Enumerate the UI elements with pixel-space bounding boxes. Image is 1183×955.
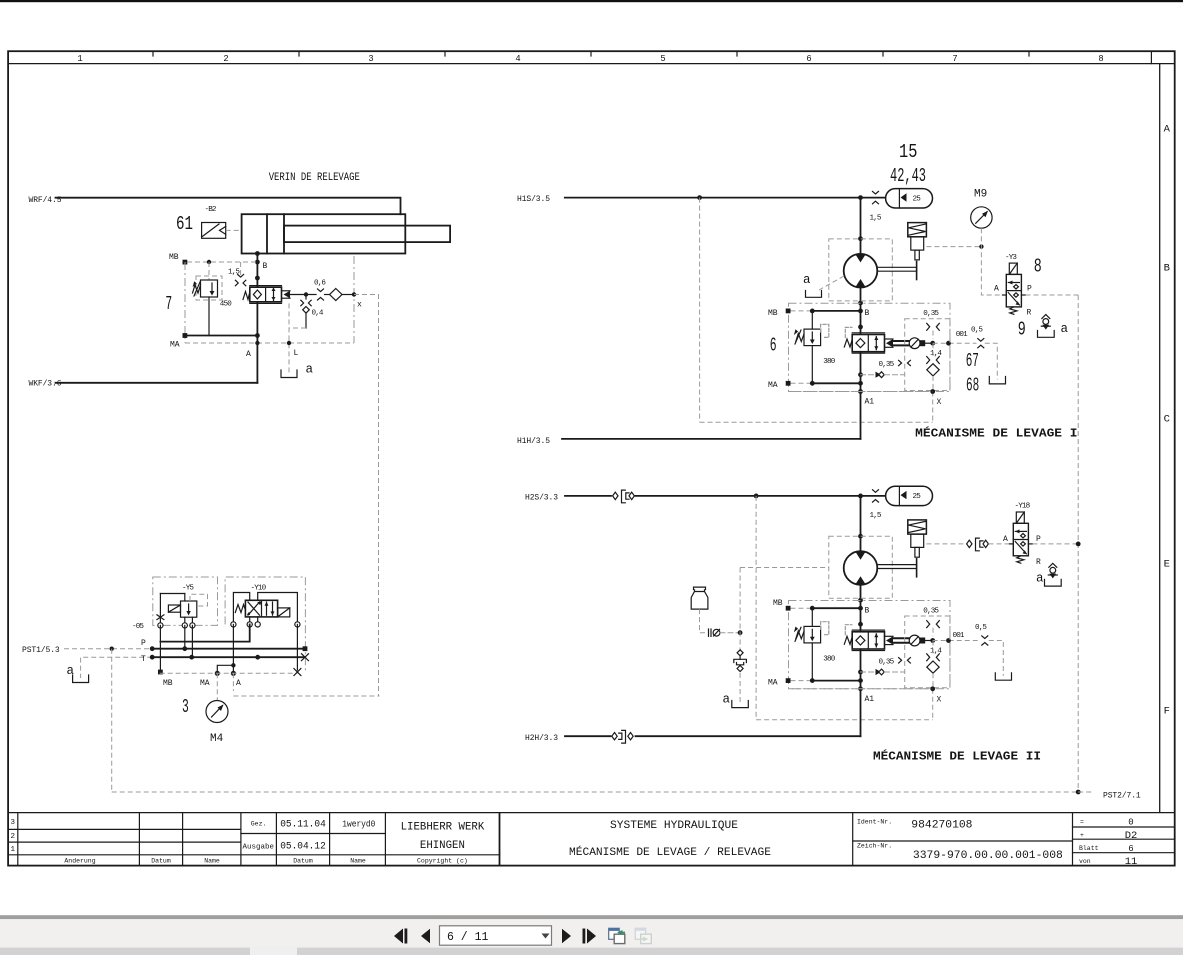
counterbalance valve (cylinder)	[243, 286, 282, 304]
svg-text:4: 4	[515, 54, 520, 64]
dash-dot box Y5	[153, 577, 218, 625]
check valve left I	[861, 372, 905, 378]
svg-text:68: 68	[966, 374, 979, 396]
drain dashed 67/68 I	[985, 343, 998, 379]
bottle wire	[700, 609, 708, 633]
wire H2S left	[565, 495, 611, 497]
svg-text:MA: MA	[768, 381, 778, 390]
main riser wire I	[860, 198, 862, 255]
relief valve 7 pilot dashes	[196, 262, 241, 300]
counterbalance pilot piston I	[885, 338, 920, 349]
svg-text:PST1/5.3: PST1/5.3	[22, 646, 60, 655]
svg-text:3: 3	[368, 54, 373, 64]
motor shaft II	[877, 559, 916, 577]
svg-text:M4: M4	[210, 733, 224, 745]
port MA square I	[786, 381, 791, 386]
pilot dashed II	[933, 640, 981, 642]
toolbar separator	[0, 915, 1183, 919]
svg-text:Zeich-Nr.: Zeich-Nr.	[857, 843, 892, 850]
tank a dashed link	[81, 657, 153, 678]
wire MB solid II	[812, 607, 860, 609]
svg-text:a: a	[803, 273, 811, 287]
svg-text:3379-970.00.00.001-008: 3379-970.00.00.001-008	[913, 850, 1063, 862]
Y5 pilot dashed loop	[190, 594, 208, 606]
block boundary dashed row	[160, 672, 298, 674]
Y3 pilot dashed to bus	[1026, 294, 1079, 296]
top window black bar	[0, 0, 1183, 2]
motor box dashed I	[829, 239, 893, 301]
svg-text:B: B	[263, 262, 268, 271]
orifice 1,4 I	[927, 357, 940, 364]
svg-text:001: 001	[956, 331, 968, 339]
svg-text:9: 9	[1018, 318, 1026, 340]
coupling (brake pilot)	[967, 538, 989, 551]
node B wire from cylinder	[256, 254, 258, 383]
orifice 0,4 branch	[301, 295, 311, 329]
svg-text:-Y18: -Y18	[1015, 503, 1031, 511]
cylinder body	[242, 214, 406, 253]
nav last-page button	[583, 929, 597, 944]
svg-text:MÉCANISME DE LEVAGE I: MÉCANISME DE LEVAGE I	[915, 426, 1077, 441]
orifice 1,5	[235, 275, 245, 286]
pilot dashed to lower block	[354, 295, 379, 697]
filter diamond	[330, 289, 342, 301]
accumulator II	[886, 486, 933, 505]
svg-text:380: 380	[823, 358, 835, 366]
svg-text:6: 6	[770, 335, 777, 357]
svg-text:MA: MA	[170, 341, 180, 350]
nav first-page button	[394, 929, 407, 944]
svg-text:A: A	[246, 350, 251, 359]
block 6 dash-dot box I	[789, 303, 951, 391]
svg-text:P: P	[1027, 285, 1032, 294]
svg-text:1: 1	[77, 54, 82, 64]
brake II	[908, 520, 927, 557]
tank a (bottle line)	[732, 701, 749, 708]
svg-text:67: 67	[966, 350, 979, 372]
svg-text:F: F	[1164, 706, 1170, 718]
svg-text:E: E	[1164, 559, 1170, 571]
svg-text:EHINGEN: EHINGEN	[420, 840, 465, 852]
svg-text:MÉCANISME DE LEVAGE II: MÉCANISME DE LEVAGE II	[873, 749, 1041, 764]
dash-dot enclosure left	[184, 262, 186, 343]
plugged end X2	[294, 669, 301, 676]
svg-text:0: 0	[1128, 818, 1133, 828]
svg-text:0,35: 0,35	[879, 361, 895, 369]
Y3 port stubs	[1003, 294, 1026, 296]
svg-text:X: X	[937, 398, 942, 407]
title block header labels	[64, 821, 467, 865]
svg-text:25: 25	[913, 493, 922, 501]
svg-text:T: T	[141, 655, 146, 664]
svg-text:Name: Name	[350, 858, 366, 865]
port MA square II	[786, 678, 791, 683]
Y5 port drops	[160, 625, 192, 672]
svg-text:5: 5	[660, 54, 665, 64]
wire MA solid I	[812, 382, 860, 384]
svg-text:Ident-Nr.: Ident-Nr.	[857, 819, 892, 826]
svg-text:6: 6	[1128, 844, 1133, 854]
A1 dashed row II	[789, 688, 933, 690]
orifice drop dashed II	[932, 628, 934, 637]
MA step wire	[217, 665, 233, 673]
svg-text:1,5: 1,5	[870, 215, 882, 223]
svg-text:VERIN DE RELEVAGE: VERIN DE RELEVAGE	[269, 172, 361, 184]
Y5 port circles	[158, 623, 195, 628]
gauge M4 wire	[216, 673, 218, 700]
brake I	[908, 223, 927, 260]
svg-text:25: 25	[913, 196, 922, 204]
main riser wire II	[860, 496, 862, 552]
orifice 0,6	[306, 289, 330, 300]
svg-text:05.11.04: 05.11.04	[280, 818, 326, 830]
breather II	[1048, 563, 1057, 578]
plugged end square	[303, 646, 308, 651]
svg-text:-05: -05	[132, 623, 144, 631]
toolbar background	[0, 919, 1183, 947]
svg-text:R: R	[1027, 309, 1032, 318]
svg-text:8: 8	[1098, 54, 1103, 64]
nav next-page button	[562, 929, 571, 943]
pilot plug II	[920, 638, 925, 644]
svg-text:0,5: 0,5	[975, 624, 987, 632]
pilot dashed I	[933, 342, 977, 344]
wire H2H corner	[636, 735, 861, 737]
svg-text:1: 1	[11, 846, 16, 854]
svg-text:P: P	[141, 639, 146, 648]
svg-text:Anderung: Anderung	[64, 858, 95, 865]
next-view icon (disabled)	[635, 928, 651, 943]
svg-text:a: a	[1061, 322, 1069, 336]
orifice 0,35 top I	[927, 323, 940, 330]
valve Y10 4/2 body	[235, 600, 290, 617]
orifice drop dashed I	[932, 331, 934, 340]
relief riser II	[811, 608, 813, 680]
right margin inner border	[1159, 64, 1161, 813]
dash-dot enclosure right	[353, 256, 355, 343]
svg-text:A: A	[236, 679, 241, 688]
wire MB dashed II	[791, 607, 813, 609]
counterbalance valve I	[844, 327, 884, 353]
brake pilot dashed II	[926, 543, 963, 545]
ruler ticks	[153, 51, 1151, 63]
pilot drop dashed I	[932, 343, 934, 422]
wire MA solid II	[812, 680, 860, 682]
hydro motor I	[844, 254, 878, 288]
svg-text:Blatt: Blatt	[1079, 845, 1099, 852]
plugged port X mark	[157, 615, 164, 620]
svg-text:3: 3	[11, 819, 16, 827]
tank a (breather I)	[1038, 331, 1055, 338]
svg-text:11: 11	[1125, 856, 1138, 868]
bus stub to PST2	[1078, 791, 1094, 793]
ruler band bottom line	[8, 63, 1175, 65]
orifice 1,5 (accu I)	[873, 191, 879, 203]
svg-text:-Y3: -Y3	[1005, 254, 1017, 262]
svg-text:von: von	[1079, 858, 1091, 865]
wire MB dashed I	[791, 310, 813, 312]
relief valve drain wire	[208, 297, 210, 336]
wire H2S right	[636, 495, 886, 497]
svg-text:LIEBHERR WERK: LIEBHERR WERK	[401, 822, 485, 834]
wire MB solid I	[812, 310, 860, 312]
svg-text:B: B	[865, 606, 870, 615]
svg-text:8: 8	[1034, 255, 1042, 277]
svg-text:B: B	[1164, 263, 1170, 275]
coupling H2S	[613, 490, 635, 503]
svg-text:MB: MB	[773, 599, 783, 608]
svg-text:0,6: 0,6	[314, 280, 326, 288]
check valve left II	[861, 669, 905, 675]
svg-text:42,43: 42,43	[890, 165, 926, 187]
solenoid valve Y18	[1013, 512, 1028, 563]
svg-text:6: 6	[806, 54, 811, 64]
wire T	[152, 656, 305, 658]
svg-text:Name: Name	[204, 858, 220, 865]
svg-text:6 / 11: 6 / 11	[447, 931, 489, 944]
wire PST1 dashed	[64, 648, 152, 650]
svg-text:15: 15	[899, 141, 917, 163]
wire WRF to cylinder	[56, 198, 401, 215]
breather (bottle line)	[734, 650, 747, 672]
pilot x wire	[342, 294, 354, 296]
svg-text:7: 7	[952, 54, 957, 64]
node B dots	[255, 251, 260, 256]
gauge M4	[206, 701, 228, 723]
sensor leader dashed	[226, 229, 242, 231]
svg-text:1weryd0: 1weryd0	[342, 819, 375, 829]
breather I	[1041, 315, 1050, 330]
A1 dashed row I	[789, 391, 933, 393]
valve Y5 body	[160, 594, 196, 626]
svg-text:2: 2	[223, 54, 228, 64]
svg-text:0,5: 0,5	[971, 327, 983, 335]
gauge M9	[971, 207, 992, 228]
svg-text:-B2: -B2	[205, 206, 217, 214]
pilot plug I	[920, 340, 925, 346]
breather riser dashed II	[739, 568, 741, 703]
enclosure dashed left II	[755, 496, 757, 720]
dashed bottom of Y10 box	[233, 695, 379, 697]
Y10 T-drop to X	[296, 624, 298, 670]
svg-text:D2: D2	[1125, 830, 1138, 842]
port L dashed	[288, 303, 290, 374]
port MB square II	[786, 606, 791, 611]
title block revision numbers	[11, 819, 16, 854]
port MB square I	[786, 309, 791, 314]
dash-dot box Y10	[225, 577, 305, 673]
enclosure dashed left I	[699, 198, 701, 423]
port MB square	[158, 670, 163, 675]
pilot drop dashed II	[932, 641, 934, 720]
wire MA dashed	[185, 342, 354, 344]
svg-text:0,35: 0,35	[923, 607, 939, 615]
svg-text:WKF/3.6: WKF/3.6	[29, 380, 62, 389]
svg-text:M9: M9	[974, 189, 987, 201]
tank a (cylinder)	[281, 370, 297, 378]
inner dashed box I	[905, 319, 950, 391]
svg-text:05.04.12: 05.04.12	[280, 841, 326, 853]
bottom pilot bus dashed	[112, 791, 1078, 793]
wire MA dashed II	[791, 680, 813, 682]
motor leak dashed II	[740, 567, 829, 569]
block dash-dot box II	[789, 601, 951, 689]
svg-text:-Y5: -Y5	[182, 585, 194, 593]
tank a (PST1)	[73, 675, 89, 683]
svg-text:a: a	[67, 664, 75, 678]
title block grid	[8, 813, 1175, 866]
svg-text:Datum: Datum	[151, 858, 171, 865]
pilot node	[304, 292, 308, 296]
wire P	[160, 624, 249, 641]
svg-text:A: A	[1164, 124, 1171, 136]
svg-text:7: 7	[165, 293, 172, 315]
orifice 0,35 left II	[899, 658, 911, 663]
svg-text:R: R	[1036, 558, 1041, 567]
counterbalance valve II	[844, 625, 884, 651]
counterbalance pilot piston II	[885, 635, 920, 646]
accumulator 42,43	[886, 189, 933, 208]
port MB square	[183, 260, 188, 265]
drain dashed II	[989, 641, 1004, 676]
enclosure dashed bottom I	[700, 421, 933, 423]
svg-text:Ausgabe: Ausgabe	[243, 844, 275, 852]
svg-text:H2S/3.3: H2S/3.3	[525, 494, 558, 503]
wire H1S	[565, 197, 886, 199]
orifice 0,5 II	[982, 636, 988, 645]
svg-text:380: 380	[823, 655, 835, 663]
check valve (bottle)	[709, 629, 741, 636]
tank a (breather II)	[1045, 579, 1062, 586]
tank a (67/68) I	[989, 377, 1005, 384]
orifice 0,35 left I	[899, 360, 911, 365]
pilot drain dash	[289, 327, 306, 329]
svg-text:A: A	[994, 285, 999, 294]
junction dots riser I	[858, 236, 863, 241]
svg-text:0,35: 0,35	[923, 310, 939, 318]
svg-text:+: +	[1080, 832, 1084, 839]
svg-text:H1H/3.5: H1H/3.5	[517, 437, 550, 446]
pilot wire I	[925, 342, 933, 344]
svg-text:a: a	[1036, 572, 1044, 586]
wire MA solid	[185, 335, 257, 337]
relief valve 380 I	[794, 324, 829, 345]
svg-text:MB: MB	[169, 253, 179, 262]
tank a (drain II)	[995, 673, 1011, 680]
cylinder rod	[284, 226, 450, 243]
svg-text:61: 61	[176, 213, 193, 235]
gauge pilot dashed	[981, 228, 1002, 295]
svg-text:450: 450	[220, 301, 232, 309]
sheet info table	[1079, 819, 1099, 866]
hydro motor II	[844, 551, 878, 585]
svg-text:Datum: Datum	[293, 858, 313, 865]
wire H1H corner	[562, 438, 861, 440]
svg-text:1,5: 1,5	[870, 512, 882, 520]
Y18 port stubs	[1010, 543, 1033, 545]
inner dashed box II	[905, 616, 950, 688]
svg-text:=: =	[1080, 819, 1084, 826]
orifice 1,4 II	[927, 654, 940, 661]
svg-text:984270108: 984270108	[911, 820, 972, 832]
motor shaft I	[877, 262, 916, 280]
pilot dashed to Y18	[989, 543, 1010, 545]
svg-text:P: P	[1036, 535, 1041, 544]
Y18 pilot dashed to bus	[1033, 543, 1079, 545]
svg-text:3: 3	[182, 696, 189, 718]
brake pilot dashed I	[926, 246, 981, 248]
right pilot bus dashed	[1077, 295, 1079, 792]
orifice 1,5 (accu II)	[873, 490, 879, 502]
junction dots riser II	[858, 534, 863, 539]
wire main PST1	[152, 648, 305, 650]
Y10 A-line drop	[232, 624, 234, 665]
relief valve body	[193, 280, 218, 297]
svg-text:a: a	[306, 363, 314, 377]
wire MA dashed I	[791, 382, 813, 384]
svg-text:X: X	[937, 695, 942, 704]
solenoid valve Y3	[1006, 263, 1021, 314]
coupling H2H	[612, 730, 633, 743]
svg-text:MA: MA	[768, 678, 778, 687]
relief riser I	[811, 311, 813, 383]
ruler column numbers 1-8	[77, 54, 1103, 64]
svg-text:x: x	[357, 301, 362, 310]
svg-text:H1S/3.5: H1S/3.5	[517, 195, 550, 204]
nav prev-page button	[421, 929, 430, 943]
svg-text:0,35: 0,35	[879, 658, 895, 666]
orifice 0,5 I	[978, 339, 984, 348]
svg-text:1,4: 1,4	[930, 648, 942, 656]
motor box dashed II	[829, 536, 893, 598]
svg-text:MÉCANISME DE LEVAGE / RELEVAGE: MÉCANISME DE LEVAGE / RELEVAGE	[569, 845, 771, 859]
svg-text:B: B	[865, 309, 870, 318]
svg-text:L: L	[294, 349, 299, 358]
sensor B2	[202, 223, 226, 239]
port MA square	[183, 333, 188, 338]
Y10 top rails	[233, 593, 297, 625]
svg-text:A: A	[1003, 535, 1008, 544]
svg-text:MA: MA	[200, 679, 210, 688]
svg-text:001: 001	[953, 632, 965, 640]
svg-text:a: a	[723, 693, 731, 707]
row letters A B C E F	[1164, 124, 1171, 718]
oil bottle	[691, 587, 708, 609]
plugged end X	[302, 654, 309, 661]
svg-text:SYSTEME HYDRAULIQUE: SYSTEME HYDRAULIQUE	[610, 820, 738, 832]
svg-text:2: 2	[11, 833, 16, 841]
filter diamond I	[927, 364, 939, 376]
svg-text:-Y10: -Y10	[251, 585, 267, 593]
pilot wire II	[925, 640, 933, 642]
relief valve 380 II	[794, 622, 829, 643]
previous-view icon	[609, 928, 625, 943]
svg-text:PST2/7.1: PST2/7.1	[1103, 792, 1141, 801]
filter diamond II	[927, 661, 939, 673]
svg-text:C: C	[1164, 414, 1170, 426]
orifice 0,35 top II	[927, 621, 940, 628]
taskbar strip	[0, 948, 1183, 955]
svg-text:0,4: 0,4	[312, 310, 324, 318]
leak line to tank a I	[819, 276, 844, 290]
svg-text:MB: MB	[163, 679, 173, 688]
svg-text:A1: A1	[865, 695, 875, 704]
wire MB dashed	[187, 261, 257, 263]
svg-text:H2H/3.3: H2H/3.3	[525, 734, 558, 743]
left pilot bus dashed	[111, 649, 113, 792]
svg-text:MB: MB	[768, 309, 778, 318]
svg-text:1,4: 1,4	[930, 350, 942, 358]
